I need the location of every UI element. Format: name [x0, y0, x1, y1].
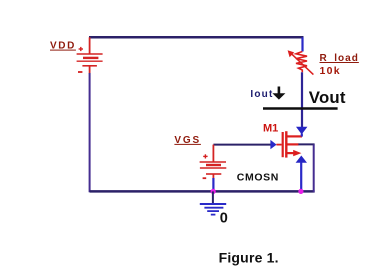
svg-text:VDD: VDD	[50, 41, 76, 52]
battery V1 VDD minus sign	[78, 71, 82, 73]
wire VGS to bottom rail	[212, 178, 214, 191]
svg-text:0: 0	[220, 210, 228, 226]
battery V2 VGS minus sign	[203, 177, 207, 179]
wire VGS to gate	[213, 144, 271, 146]
wire top-right vertical to resistor	[301, 37, 303, 51]
battery V1 VDD plates	[77, 54, 103, 66]
annotation source current arrow	[296, 156, 307, 163]
svg-text:CMOSN: CMOSN	[237, 172, 279, 184]
wire top rail	[89, 36, 304, 39]
transistor M1 gate bar	[282, 132, 284, 157]
svg-text:VGS: VGS	[174, 135, 201, 146]
battery V2 VGS plus sign	[203, 154, 207, 158]
wire bulk vertical loop	[313, 144, 315, 192]
battery V1 VDD bottom pin	[89, 66, 91, 74]
node Vout terminal bar	[263, 107, 338, 109]
wire left rail	[89, 73, 91, 192]
svg-text:10k: 10k	[320, 65, 341, 77]
wire bulk horizontal	[298, 143, 314, 145]
transistor M1 channel bar	[285, 131, 287, 157]
battery V2 VGS bottom pin	[212, 174, 214, 178]
annotation gate arrow	[270, 140, 276, 149]
svg-text:Vout: Vout	[309, 88, 346, 107]
ground stem	[212, 191, 214, 204]
battery V2 VGS plates	[200, 162, 227, 174]
transistor M1 bulk pin	[286, 143, 298, 145]
annotation Iout down arrow	[272, 87, 285, 100]
wire drain stub	[301, 134, 303, 137]
battery V2 VGS top pin	[212, 145, 214, 162]
resistor R_load wiper arrow	[288, 50, 314, 74]
wire source to bottom rail	[300, 162, 302, 191]
svg-text:R_load: R_load	[320, 53, 359, 64]
svg-text:Iout: Iout	[250, 89, 273, 100]
wire resistor to drain	[301, 72, 303, 128]
svg-text:M1: M1	[263, 123, 278, 135]
junction dot at source node	[298, 189, 303, 194]
annotation drain current arrow	[296, 127, 307, 135]
ground symbol 0	[200, 204, 226, 215]
junction dot at VGS node	[211, 189, 216, 194]
wire bottom rail	[90, 190, 315, 193]
battery V1 VDD top pin	[89, 37, 91, 54]
svg-text:Figure 1.: Figure 1.	[219, 249, 279, 265]
transistor M1 source leg	[286, 152, 294, 154]
resistor R_load zigzag	[296, 52, 307, 73]
transistor M1 source arrow	[293, 150, 301, 156]
transistor M1 gate pin	[276, 144, 281, 146]
battery V1 VDD plus sign	[79, 47, 83, 51]
transistor M1 drain leg	[286, 135, 302, 137]
